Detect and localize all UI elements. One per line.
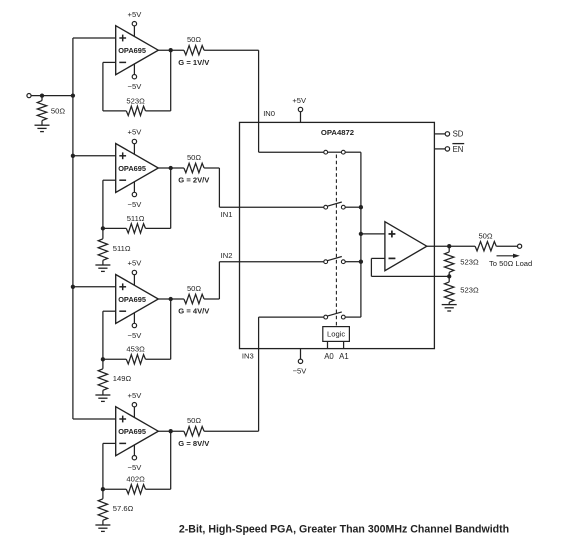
svg-text:511Ω: 511Ω bbox=[127, 214, 145, 223]
svg-text:+5V: +5V bbox=[128, 10, 143, 19]
svg-text:Logic: Logic bbox=[327, 330, 345, 339]
svg-text:50Ω: 50Ω bbox=[187, 284, 201, 293]
svg-text:−5V: −5V bbox=[293, 366, 308, 375]
svg-text:IN2: IN2 bbox=[221, 251, 233, 260]
svg-text:IN0: IN0 bbox=[263, 109, 275, 118]
svg-text:50Ω: 50Ω bbox=[478, 231, 492, 240]
svg-text:A0: A0 bbox=[324, 352, 334, 361]
svg-text:50Ω: 50Ω bbox=[187, 35, 201, 44]
svg-text:To 50Ω Load: To 50Ω Load bbox=[489, 259, 532, 268]
svg-text:OPA695: OPA695 bbox=[118, 295, 146, 304]
svg-text:OPA695: OPA695 bbox=[118, 46, 146, 55]
svg-text:−5V: −5V bbox=[128, 331, 143, 340]
svg-text:G = 1V/V: G = 1V/V bbox=[178, 58, 210, 67]
svg-text:G = 8V/V: G = 8V/V bbox=[178, 439, 210, 448]
svg-text:SD: SD bbox=[453, 130, 464, 139]
svg-text:50Ω: 50Ω bbox=[51, 107, 65, 116]
svg-text:−5V: −5V bbox=[128, 200, 143, 209]
svg-text:402Ω: 402Ω bbox=[126, 475, 145, 484]
svg-text:OPA695: OPA695 bbox=[118, 164, 146, 173]
svg-text:50Ω: 50Ω bbox=[187, 153, 201, 162]
svg-text:G = 2V/V: G = 2V/V bbox=[178, 176, 210, 185]
svg-text:2-Bit, High-Speed PGA, Greater: 2-Bit, High-Speed PGA, Greater Than 300M… bbox=[179, 523, 509, 535]
svg-text:511Ω: 511Ω bbox=[113, 244, 131, 253]
svg-text:EN: EN bbox=[453, 145, 464, 154]
svg-text:G = 4V/V: G = 4V/V bbox=[178, 307, 210, 316]
svg-text:−5V: −5V bbox=[128, 82, 143, 91]
svg-text:OPA695: OPA695 bbox=[118, 427, 146, 436]
svg-text:IN3: IN3 bbox=[242, 351, 254, 360]
svg-text:−5V: −5V bbox=[128, 463, 143, 472]
svg-text:+5V: +5V bbox=[128, 128, 143, 137]
svg-text:+5V: +5V bbox=[128, 259, 143, 268]
svg-text:A1: A1 bbox=[339, 352, 349, 361]
svg-text:523Ω: 523Ω bbox=[126, 96, 145, 105]
svg-text:57.6Ω: 57.6Ω bbox=[113, 504, 134, 513]
svg-text:523Ω: 523Ω bbox=[460, 286, 479, 295]
svg-text:OPA4872: OPA4872 bbox=[321, 128, 354, 137]
svg-text:IN1: IN1 bbox=[221, 210, 233, 219]
svg-text:453Ω: 453Ω bbox=[126, 345, 145, 354]
svg-text:+5V: +5V bbox=[128, 391, 143, 400]
svg-text:523Ω: 523Ω bbox=[460, 257, 479, 266]
svg-text:149Ω: 149Ω bbox=[113, 374, 132, 383]
svg-text:+5V: +5V bbox=[292, 96, 307, 105]
svg-text:50Ω: 50Ω bbox=[187, 416, 201, 425]
